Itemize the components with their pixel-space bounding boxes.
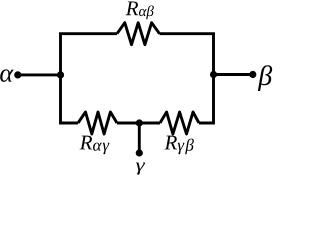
- label R_gb: [164, 136, 193, 155]
- wire beta lead: [214, 73, 253, 76]
- label alpha: [0, 69, 13, 82]
- node alpha junction dot: [57, 71, 64, 78]
- node gamma terminal dot: [136, 149, 143, 156]
- node gamma junction dot: [136, 119, 143, 126]
- node alpha terminal dot: [14, 71, 21, 78]
- label gamma: [136, 163, 145, 175]
- wire top-left corner segment: [61, 34, 118, 123]
- wire top-right corner segment: [160, 34, 214, 123]
- label R_ab: [126, 1, 154, 19]
- label beta: [258, 65, 272, 91]
- wire gamma lead: [138, 123, 141, 153]
- resistor R_ab zigzag: [117, 23, 160, 45]
- label R_ag: [80, 136, 110, 155]
- wire bottom middle: [117, 122, 160, 125]
- resistor R_gb zigzag: [160, 112, 199, 134]
- node beta junction dot: [210, 71, 217, 78]
- resistor R_ag zigzag: [78, 112, 117, 134]
- node beta terminal dot: [249, 71, 256, 78]
- wire alpha lead: [18, 73, 61, 76]
